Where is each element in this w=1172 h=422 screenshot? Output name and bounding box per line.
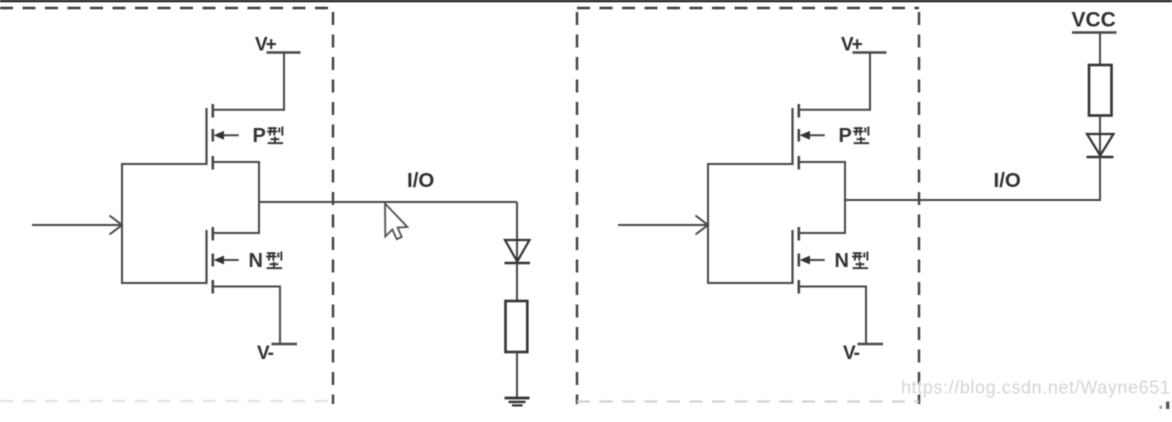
label V- (right) — [843, 343, 860, 364]
transistor Q2b NMOS (right) — [793, 227, 825, 294]
label P-type (right) — [839, 125, 870, 147]
wire PMOS drain to V+ (right) — [798, 53, 870, 111]
svg-text:V+: V+ — [841, 35, 863, 56]
wire gate to NMOS (right) — [707, 282, 794, 284]
watermark text — [901, 378, 1171, 398]
dashed boundary box left chip — [0, 8, 333, 404]
transistor Q1a PMOS (left) — [207, 104, 239, 170]
wire I/O (right) — [845, 199, 1100, 201]
label N-type (left) — [249, 250, 283, 272]
power rail VCC — [1072, 31, 1117, 33]
transistor Q1b NMOS (left) — [207, 227, 239, 294]
wire PMOS drain to V+ (left) — [212, 53, 284, 111]
power rail V- (left) — [272, 343, 298, 345]
wire gate to NMOS (left) — [121, 282, 208, 284]
power rail V+ (left) — [267, 51, 301, 53]
wire I/O to diode D1 — [516, 202, 518, 262]
transistor Q2a PMOS (right) — [793, 104, 825, 170]
power rail V+ (right) — [853, 51, 887, 53]
label V+ (left) — [255, 35, 277, 56]
wire PMOS source to output (left) — [212, 161, 259, 163]
wire gate to PMOS (left) — [121, 163, 208, 165]
svg-text:V+: V+ — [255, 35, 277, 56]
wire resistor R1 to ground — [516, 352, 518, 398]
label P-type (left) — [253, 125, 284, 147]
wire diode D1 to resistor R1 — [516, 263, 518, 301]
wire output node vertical (right) — [844, 161, 846, 234]
mouse cursor — [385, 204, 407, 240]
dashed boundary box right chip — [577, 8, 919, 404]
wire gate to PMOS (right) — [707, 163, 794, 165]
wire resistor R2 to diode D2 — [1099, 116, 1101, 157]
svg-text:V-: V- — [843, 343, 860, 364]
wire PMOS source to output (right) — [798, 161, 845, 163]
label N-type (right) — [835, 250, 869, 272]
input arrowhead (left) — [110, 216, 123, 235]
label V- (left) — [257, 343, 274, 364]
wire input (left) — [32, 224, 121, 226]
svg-text:N: N — [835, 250, 849, 272]
svg-text:P: P — [253, 125, 266, 147]
ground — [505, 398, 530, 405]
wire output node vertical (left) — [258, 161, 260, 234]
label I/O (right) — [994, 169, 1021, 192]
wire I/O (left) — [259, 201, 517, 203]
wire NMOS drain to output (left) — [212, 232, 259, 234]
resistor R1 — [506, 301, 528, 352]
label V+ (right) — [841, 35, 863, 56]
svg-text:P: P — [839, 125, 852, 147]
svg-text:https://blog.csdn.net/Wayne651: https://blog.csdn.net/Wayne651 — [901, 378, 1171, 398]
wire diode D2 to I/O — [1099, 157, 1101, 201]
svg-text:I/O: I/O — [994, 169, 1021, 192]
svg-text:N: N — [249, 250, 263, 272]
wire NMOS source to V- (left) — [212, 286, 280, 345]
svg-text:V-: V- — [257, 343, 274, 364]
wire gate bus vertical (right) — [707, 163, 709, 284]
wire gate bus vertical (left) — [121, 163, 123, 284]
wire VCC to resistor R2 — [1099, 33, 1101, 66]
label I/O (left) — [407, 169, 434, 192]
diode D1 — [505, 240, 531, 263]
power rail V- (right) — [858, 343, 884, 345]
diode D2 — [1087, 134, 1114, 157]
wire NMOS drain to output (right) — [798, 232, 845, 234]
wire input (right) — [618, 224, 707, 226]
svg-text:VCC: VCC — [1072, 9, 1116, 32]
corner mark — [1160, 402, 1170, 410]
resistor R2 — [1089, 65, 1112, 116]
wire NMOS source to V- (right) — [798, 286, 866, 345]
label VCC — [1072, 9, 1116, 32]
input arrowhead (right) — [696, 216, 709, 235]
svg-text:I/O: I/O — [407, 169, 434, 192]
